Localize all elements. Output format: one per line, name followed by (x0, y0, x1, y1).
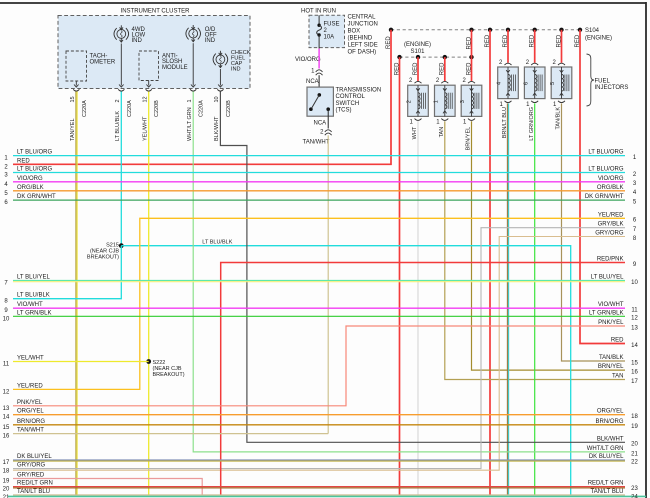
wire RED S101 to injector 1 (444, 57, 446, 81)
wire LT BLU/BLK 4WD to S215 (120, 92, 122, 246)
svg-text:1: 1 (187, 99, 193, 102)
wire RED long from S101 (399, 57, 401, 495)
wire VIO/ORG circuit 4 (13, 181, 625, 183)
svg-text:PNK/YEL: PNK/YEL (17, 400, 43, 406)
svg-text:(ENGINE): (ENGINE) (585, 35, 612, 41)
wire WHT injector 2 (417, 121, 419, 495)
svg-text:RED/LT GRN: RED/LT GRN (588, 481, 624, 487)
svg-text:OF DASH): OF DASH) (348, 50, 377, 56)
splice S215 (119, 243, 124, 248)
anti-slosh module (139, 51, 159, 81)
svg-text:RED/LT GRN: RED/LT GRN (17, 481, 53, 487)
svg-text:MODULE: MODULE (162, 65, 188, 71)
wire TAN/YEL tachometer (75, 92, 77, 496)
svg-text:BREAKOUT): BREAKOUT) (87, 255, 119, 261)
svg-text:PNK/YEL: PNK/YEL (598, 320, 624, 326)
wire DK GRN/WHT circuit 6 (13, 199, 625, 201)
svg-text:LT BLU/YEL: LT BLU/YEL (17, 274, 50, 280)
svg-text:OMETER: OMETER (90, 60, 116, 66)
svg-text:2: 2 (115, 99, 121, 102)
svg-text:17: 17 (3, 460, 10, 466)
svg-text:12: 12 (3, 389, 10, 395)
svg-text:LT GRN/BLK: LT GRN/BLK (17, 310, 51, 316)
svg-text:18: 18 (631, 414, 638, 420)
svg-text:TAN: TAN (612, 374, 624, 380)
wire RED S104 to S101 (471, 30, 473, 57)
wire TAN/WHT circuit 16 (13, 433, 328, 435)
svg-text:DK BLU/YEL: DK BLU/YEL (589, 454, 624, 460)
svg-text:10: 10 (3, 316, 10, 322)
svg-text:TAN/WHT: TAN/WHT (303, 140, 330, 146)
svg-text:10: 10 (631, 280, 638, 286)
svg-text:TRANSMISSION: TRANSMISSION (336, 88, 382, 94)
svg-text:16: 16 (3, 434, 10, 440)
wire TAN/LT BLU circuit 21 (13, 494, 625, 496)
svg-text:BRN/LT BLU: BRN/LT BLU (502, 107, 508, 138)
tachometer (66, 51, 87, 81)
svg-text:LT GRN/BLK: LT GRN/BLK (589, 310, 623, 316)
svg-text:DK GRN/WHT: DK GRN/WHT (17, 194, 56, 200)
svg-text:15: 15 (631, 360, 638, 366)
svg-text:BOX: BOX (348, 29, 361, 35)
wire LT BLU/BLK S215 across (121, 246, 570, 496)
wire YEL/RED circuit 6 to circuit 12 (13, 218, 625, 389)
svg-text:5: 5 (550, 82, 556, 85)
svg-text:RED: RED (611, 338, 624, 344)
wire VIO/WHT circuit 9 (13, 307, 625, 309)
svg-text:14: 14 (631, 343, 638, 349)
svg-text:20: 20 (3, 487, 10, 493)
svg-text:RED: RED (394, 62, 400, 75)
svg-text:(BEHIND: (BEHIND (348, 36, 373, 42)
svg-text:17: 17 (631, 379, 638, 385)
svg-text:LT BLU/BLK: LT BLU/BLK (17, 293, 50, 299)
svg-text:INSTRUMENT CLUSTER: INSTRUMENT CLUSTER (121, 9, 191, 15)
svg-text:IND: IND (231, 67, 241, 73)
wire ORG/BLK circuit 5 (13, 190, 625, 192)
svg-text:BLK/WHT: BLK/WHT (214, 116, 220, 141)
svg-text:(TCS): (TCS) (336, 108, 352, 114)
svg-text:GRY/ORG: GRY/ORG (17, 463, 46, 469)
svg-text:LT BLU/BLK: LT BLU/BLK (202, 239, 232, 245)
svg-text:12: 12 (631, 316, 638, 322)
svg-text:VIO/WHT: VIO/WHT (598, 302, 624, 308)
svg-text:LT BLU/ORG: LT BLU/ORG (17, 167, 52, 173)
splice S104 bus (391, 29, 580, 31)
svg-text:LEFT SIDE: LEFT SIDE (348, 43, 378, 49)
svg-text:6: 6 (523, 82, 529, 85)
svg-text:ORG/YEL: ORG/YEL (17, 409, 44, 415)
wire GRY/BLK circuit 7 (13, 228, 625, 469)
svg-text:HOT IN RUN: HOT IN RUN (301, 9, 336, 15)
svg-text:10A: 10A (324, 35, 335, 41)
svg-text:13: 13 (631, 325, 638, 331)
svg-text:RED: RED (466, 36, 472, 49)
svg-text:LT BLU/BLK: LT BLU/BLK (115, 111, 121, 141)
svg-text:SWITCH: SWITCH (336, 101, 360, 107)
svg-text:12: 12 (143, 96, 149, 102)
wire BRN/YEL injector 3 (472, 121, 626, 370)
wire LT BLU/BLK S215 branch down to circuit 8 (13, 246, 121, 299)
svg-text:LT BLU/ORG: LT BLU/ORG (588, 150, 623, 156)
wire RED long from S104 (489, 30, 491, 496)
svg-text:NCA: NCA (306, 79, 319, 85)
svg-text:RED: RED (485, 34, 491, 47)
svg-text:C220B: C220B (154, 100, 160, 117)
svg-text:16: 16 (631, 370, 638, 376)
svg-text:RED: RED (530, 34, 536, 47)
wire GRY/ORG circuit 8 (13, 237, 625, 471)
svg-text:TAN/LT BLU: TAN/LT BLU (17, 489, 50, 495)
svg-text:WHT/LT GRN: WHT/LT GRN (187, 107, 193, 141)
svg-text:22: 22 (631, 459, 638, 465)
fuel injectors brace (587, 54, 595, 106)
svg-text:CONTROL: CONTROL (336, 94, 366, 100)
splice S101 bus (400, 56, 472, 58)
svg-text:DK BLU/YEL: DK BLU/YEL (17, 454, 52, 460)
splice S222 (146, 359, 151, 364)
wire LT GRN/ORG injector 6 (534, 103, 536, 495)
svg-text:VIO/WHT: VIO/WHT (17, 302, 43, 308)
wire LT BLU/ORG circuit 3 (13, 172, 625, 174)
wire DK BLU/YEL circuit 17 (13, 459, 625, 461)
svg-text:GRY/BLK: GRY/BLK (598, 222, 624, 228)
wire RED S104 to injector 5 (561, 30, 563, 63)
svg-text:21: 21 (631, 451, 638, 457)
svg-text:2: 2 (407, 100, 413, 103)
svg-text:VIO/ORG: VIO/ORG (598, 176, 624, 182)
svg-text:TAN: TAN (439, 127, 445, 138)
svg-text:14: 14 (3, 415, 10, 421)
wire RED/LT GRN circuit 20 (13, 486, 625, 488)
CHECK FUEL CAP indicator (213, 51, 228, 65)
wire RED S104 to injector 6 (534, 30, 536, 63)
wire RED/PNK circuit 9 (221, 263, 625, 496)
wire RED S101 to injector 3 (471, 57, 473, 81)
svg-text:TAN/BLK: TAN/BLK (599, 355, 624, 361)
svg-text:24: 24 (631, 494, 638, 498)
svg-text:4: 4 (497, 82, 503, 85)
cluster connector pins (74, 85, 79, 88)
svg-text:BRN/ORG: BRN/ORG (17, 419, 45, 425)
instrument cluster box (58, 16, 250, 89)
svg-text:BRN/ORG: BRN/ORG (595, 419, 623, 425)
svg-text:FUEL: FUEL (595, 79, 611, 85)
svg-text:RED/PNK: RED/PNK (597, 257, 624, 263)
svg-text:TAN/WHT: TAN/WHT (17, 428, 44, 434)
svg-text:GRY/RED: GRY/RED (17, 473, 45, 479)
transmission control switch TCS (307, 87, 333, 116)
wire LT GRN/BLK circuit 10 (13, 315, 625, 317)
svg-text:20: 20 (631, 442, 638, 448)
svg-text:15: 15 (70, 96, 76, 102)
svg-text:TAN/BLK: TAN/BLK (556, 107, 562, 130)
svg-text:19: 19 (3, 479, 10, 485)
svg-text:C220A: C220A (199, 100, 205, 117)
svg-text:VIO/ORG: VIO/ORG (17, 176, 43, 182)
svg-text:23: 23 (631, 486, 638, 492)
wire BLK/WHT check fuel cap (220, 92, 625, 443)
svg-text:YEL/RED: YEL/RED (17, 383, 43, 389)
svg-text:TAN/LT BLU: TAN/LT BLU (590, 489, 623, 495)
svg-text:11: 11 (631, 308, 638, 314)
svg-text:NCA: NCA (314, 121, 327, 127)
wire TAN/BLK injector 5 (562, 103, 626, 361)
wire RED S104 to injector 4 (507, 30, 509, 63)
O/D OFF indicator (186, 25, 201, 39)
svg-text:(ENGINE): (ENGINE) (404, 42, 431, 48)
svg-text:VIO/ORG: VIO/ORG (295, 57, 321, 63)
svg-text:ORG/YEL: ORG/YEL (597, 409, 624, 415)
svg-text:BRN/YEL: BRN/YEL (598, 364, 624, 370)
svg-text:RED: RED (503, 34, 509, 47)
svg-text:BLK/WHT: BLK/WHT (597, 436, 624, 442)
svg-text:C220A: C220A (82, 100, 88, 117)
svg-text:CENTRAL: CENTRAL (348, 15, 377, 21)
svg-text:FUSE: FUSE (324, 22, 340, 28)
svg-text:YEL/RED: YEL/RED (598, 212, 624, 218)
svg-text:WHT/LT GRN: WHT/LT GRN (587, 446, 624, 452)
svg-text:IND: IND (205, 38, 216, 44)
svg-text:15: 15 (3, 425, 10, 431)
wire RED S104 to circuit 14 (580, 30, 625, 344)
svg-text:ORG/BLK: ORG/BLK (17, 185, 44, 191)
svg-text:LT BLU/ORG: LT BLU/ORG (17, 150, 52, 156)
svg-text:LT BLU/ORG: LT BLU/ORG (588, 167, 623, 173)
svg-text:BRN/YEL: BRN/YEL (466, 127, 472, 151)
svg-text:RED: RED (17, 158, 30, 164)
page border (0, 2, 646, 4)
wire RED S104 to left circuit 2 (13, 30, 391, 165)
svg-text:RED: RED (386, 36, 392, 49)
svg-text:ORG/BLK: ORG/BLK (597, 185, 624, 191)
svg-text:LT BLU/YEL: LT BLU/YEL (591, 274, 624, 280)
svg-text:3: 3 (460, 100, 466, 103)
svg-text:DK GRN/WHT: DK GRN/WHT (585, 194, 624, 200)
svg-text:RED: RED (413, 62, 419, 75)
svg-text:S101: S101 (410, 49, 425, 55)
svg-text:18: 18 (3, 469, 10, 475)
svg-text:S104: S104 (585, 28, 600, 34)
svg-text:1: 1 (433, 100, 439, 103)
wire BRN/ORG circuit 15 (13, 424, 625, 426)
svg-text:TAN/YEL: TAN/YEL (70, 118, 76, 141)
wire YEL/WHT anti-slosh to S222 (148, 92, 150, 496)
4WD LOW indicator (114, 25, 129, 39)
wire BRN/LT BLU injector 4 (506, 103, 508, 495)
svg-text:LT GRN/ORG: LT GRN/ORG (529, 107, 535, 141)
wire YEL/WHT circuit 11 (13, 361, 149, 363)
svg-text:RED: RED (466, 62, 472, 75)
svg-text:19: 19 (631, 424, 638, 430)
svg-text:RED: RED (575, 34, 581, 47)
svg-text:13: 13 (3, 406, 10, 412)
svg-text:BREAKOUT): BREAKOUT) (153, 372, 185, 378)
svg-text:C220B: C220B (226, 100, 232, 117)
svg-text:RED: RED (440, 62, 446, 75)
svg-text:11: 11 (3, 362, 10, 368)
svg-text:C220A: C220A (127, 100, 133, 117)
wire LT BLU/ORG circuit 1 (13, 155, 625, 157)
wire ORG/YEL circuit 14 (13, 414, 625, 416)
svg-text:RED: RED (556, 34, 562, 47)
wire RED S101 to injector 2 (417, 57, 419, 81)
svg-text:10: 10 (214, 96, 220, 102)
svg-text:JUNCTION: JUNCTION (348, 22, 378, 28)
wire PNK/YEL circuit 13 left to right (13, 326, 625, 406)
wire WHT/LT GRN O/D ind (193, 92, 625, 452)
svg-text:INJECTORS: INJECTORS (595, 85, 629, 91)
wire GRY/RED circuit 19 (13, 479, 202, 496)
wire LT BLU/YEL circuit 7 (13, 279, 625, 281)
svg-text:YEL/WHT: YEL/WHT (143, 116, 149, 141)
wire TAN injector 1 (445, 121, 625, 379)
svg-text:GRY/ORG: GRY/ORG (595, 231, 624, 237)
svg-text:IND: IND (132, 38, 143, 44)
svg-text:YEL/WHT: YEL/WHT (17, 356, 44, 362)
svg-text:WHT: WHT (412, 126, 418, 139)
